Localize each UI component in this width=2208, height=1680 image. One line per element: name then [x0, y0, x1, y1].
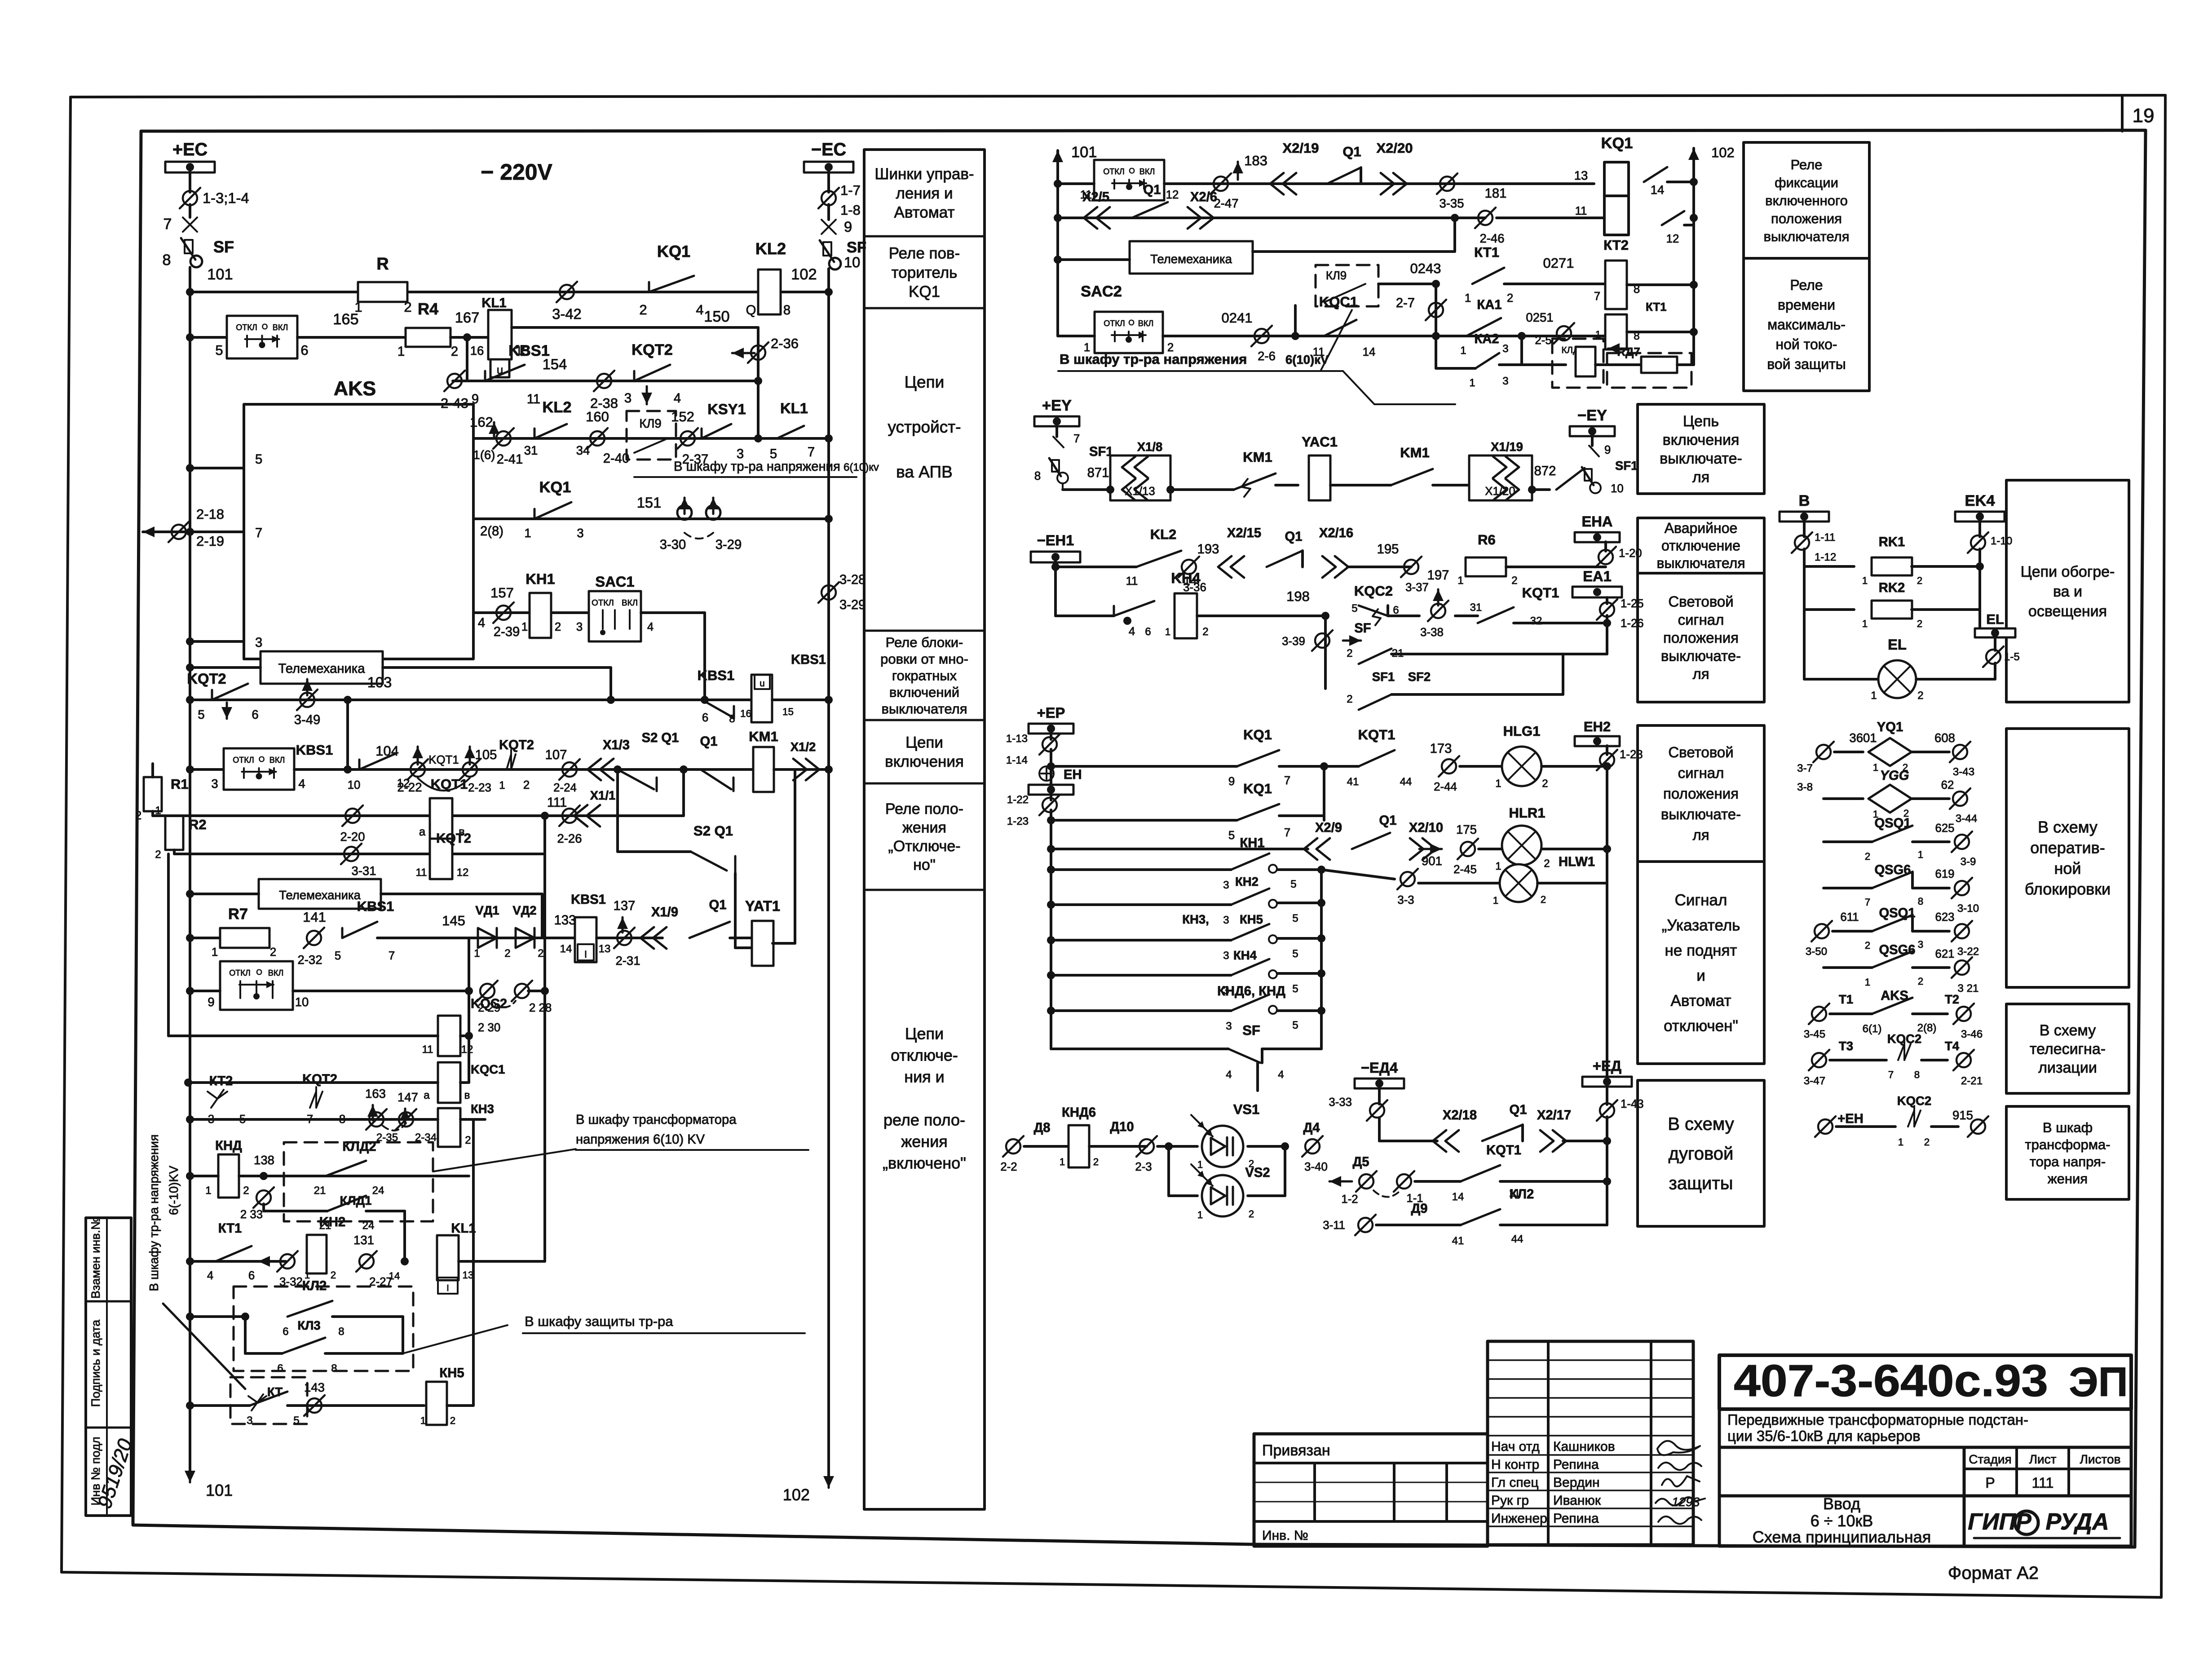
svg-text:1: 1: [1865, 977, 1870, 988]
svg-text:Реле: Реле: [1790, 277, 1823, 293]
svg-text:КА1: КА1: [1477, 298, 1501, 312]
svg-text:1: 1: [1495, 778, 1501, 790]
svg-text:KQT2: KQT2: [302, 1072, 337, 1087]
svg-text:21: 21: [314, 1185, 326, 1197]
svg-text:Телемеханика: Телемеханика: [1150, 252, 1232, 266]
svg-text:5: 5: [1228, 829, 1235, 842]
svg-text:1-22: 1-22: [1007, 794, 1029, 806]
svg-text:EL: EL: [1888, 636, 1907, 653]
svg-text:Q: Q: [746, 303, 756, 318]
svg-text:SF1: SF1: [1372, 670, 1395, 684]
svg-text:2-18: 2-18: [196, 506, 224, 522]
svg-text:34: 34: [576, 443, 590, 457]
svg-text:В схему: В схему: [2040, 1022, 2096, 1039]
svg-text:3: 3: [1918, 939, 1923, 950]
svg-text:11: 11: [1575, 205, 1587, 217]
svg-text:AKS: AKS: [334, 378, 376, 400]
svg-text:VД1: VД1: [475, 903, 499, 917]
svg-text:КЛ9: КЛ9: [639, 416, 661, 430]
svg-text:1: 1: [1465, 292, 1471, 305]
svg-text:6 ÷ 10кВ: 6 ÷ 10кВ: [1811, 1512, 1873, 1530]
svg-text:Листов: Листов: [2080, 1452, 2121, 1466]
svg-text:12: 12: [457, 867, 469, 879]
svg-text:КТ1: КТ1: [218, 1221, 242, 1236]
svg-text:2: 2: [1093, 1156, 1099, 1167]
svg-text:3-49: 3-49: [294, 713, 320, 727]
svg-text:KM1: KM1: [1400, 445, 1429, 460]
svg-text:КЛ2: КЛ2: [1510, 1187, 1534, 1202]
svg-text:X2/17: X2/17: [1537, 1108, 1571, 1123]
svg-text:КЛ9: КЛ9: [1326, 270, 1347, 282]
svg-text:КНД: КНД: [215, 1139, 242, 1153]
svg-text:KQ1: KQ1: [1601, 135, 1633, 152]
svg-text:KBS1: KBS1: [571, 893, 606, 907]
svg-text:131: 131: [353, 1233, 374, 1247]
svg-text:8: 8: [162, 252, 171, 269]
svg-text:KQC2: KQC2: [471, 997, 507, 1011]
svg-text:KL2: KL2: [543, 399, 572, 416]
svg-text:QSG6: QSG6: [1879, 943, 1915, 957]
svg-text:Q1: Q1: [1510, 1103, 1527, 1117]
svg-text:7: 7: [1865, 897, 1870, 908]
svg-text:сигнал: сигнал: [1678, 611, 1724, 628]
svg-text:1-20: 1-20: [1619, 547, 1642, 560]
svg-text:SF2: SF2: [1408, 670, 1431, 684]
svg-text:включения: включения: [885, 753, 964, 770]
svg-text:жения: жения: [901, 1132, 948, 1151]
svg-text:KQT1: KQT1: [431, 776, 468, 792]
svg-text:KL2: KL2: [755, 239, 786, 258]
svg-text:9: 9: [208, 995, 214, 1009]
svg-text:141: 141: [303, 909, 326, 925]
svg-text:2: 2: [1202, 626, 1208, 638]
svg-text:872: 872: [1534, 464, 1556, 478]
svg-text:2: 2: [243, 1185, 249, 1197]
svg-text:1: 1: [212, 946, 218, 959]
svg-text:ОТКЛ: ОТКЛ: [1104, 319, 1125, 328]
svg-text:+ЕД: +ЕД: [1593, 1057, 1621, 1074]
svg-text:включенного: включенного: [1765, 193, 1848, 208]
svg-text:напряжения 6(10) KV: напряжения 6(10) KV: [576, 1132, 705, 1147]
svg-text:5: 5: [255, 452, 262, 467]
svg-text:торитель: торитель: [892, 264, 958, 281]
svg-text:максималь-: максималь-: [1767, 317, 1846, 333]
svg-text:устройст-: устройст-: [888, 418, 961, 436]
svg-text:Рук гр: Рук гр: [1491, 1493, 1529, 1508]
svg-text:8: 8: [1034, 470, 1041, 482]
svg-text:5: 5: [1290, 878, 1296, 890]
svg-text:ния и: ния и: [904, 1068, 945, 1086]
svg-text:Автомат: Автомат: [894, 203, 954, 221]
svg-text:3-7: 3-7: [1797, 762, 1813, 774]
svg-text:Кашников: Кашников: [1553, 1439, 1615, 1454]
svg-text:11: 11: [422, 1043, 433, 1056]
svg-text:О: О: [1128, 318, 1134, 327]
svg-text:1-2: 1-2: [1341, 1193, 1358, 1206]
svg-text:102: 102: [1711, 145, 1735, 160]
svg-text:YGG: YGG: [1880, 769, 1909, 783]
svg-text:SF: SF: [1354, 621, 1371, 636]
svg-text:Р: Р: [1985, 1475, 1995, 1491]
svg-text:3-33: 3-33: [1329, 1096, 1352, 1109]
svg-text:181: 181: [1485, 186, 1507, 201]
svg-text:2: 2: [451, 345, 458, 359]
svg-text:EK4: EK4: [1965, 492, 1995, 509]
svg-text:24: 24: [362, 1220, 375, 1232]
svg-text:лизации: лизации: [2038, 1059, 2097, 1076]
svg-text:14: 14: [560, 943, 572, 955]
svg-text:времени: времени: [1778, 297, 1835, 313]
svg-text:6: 6: [1393, 604, 1399, 616]
svg-text:13: 13: [1574, 168, 1588, 182]
svg-text:S2 Q1: S2 Q1: [693, 823, 733, 839]
svg-text:7: 7: [255, 526, 262, 540]
svg-text:Привязан: Привязан: [1262, 1442, 1330, 1459]
svg-text:КН5: КН5: [1240, 912, 1263, 926]
svg-text:SF: SF: [1242, 1022, 1260, 1038]
svg-text:2-32: 2-32: [297, 953, 322, 967]
svg-text:КН3,: КН3,: [1182, 912, 1209, 926]
svg-text:4: 4: [1226, 1069, 1232, 1081]
svg-text:14: 14: [1452, 1191, 1464, 1203]
svg-text:KQT2: KQT2: [436, 831, 471, 846]
svg-text:X1/8: X1/8: [1137, 440, 1163, 454]
svg-text:3-11: 3-11: [1323, 1219, 1345, 1232]
svg-text:6: 6: [252, 707, 258, 721]
svg-text:+EP: +EP: [1037, 704, 1065, 721]
svg-text:3-40: 3-40: [1304, 1161, 1328, 1173]
svg-text:5: 5: [239, 1113, 246, 1126]
svg-text:выключателя: выключателя: [1764, 229, 1850, 244]
svg-text:3-43: 3-43: [1953, 766, 1974, 778]
svg-text:+EC: +EC: [172, 140, 208, 159]
svg-text:KQ1: KQ1: [539, 479, 571, 496]
svg-text:KQ1: KQ1: [1243, 781, 1272, 796]
svg-text:2: 2: [1917, 690, 1923, 702]
svg-text:+EY: +EY: [1042, 397, 1072, 414]
svg-text:2-5: 2-5: [1535, 334, 1551, 347]
svg-text:2-3: 2-3: [1135, 1161, 1152, 1173]
svg-text:2: 2: [1347, 693, 1352, 705]
svg-text:KBS1: KBS1: [357, 898, 394, 914]
svg-text:1293: 1293: [1672, 1495, 1700, 1509]
svg-text:положения: положения: [1663, 629, 1739, 646]
svg-text:8: 8: [729, 713, 735, 725]
svg-text:44: 44: [1511, 1233, 1524, 1245]
svg-text:24: 24: [372, 1185, 384, 1197]
svg-text:РУДА: РУДА: [2045, 1509, 2109, 1535]
svg-text:16: 16: [740, 708, 751, 719]
svg-text:KM1: KM1: [1243, 449, 1272, 465]
svg-text:Стадия: Стадия: [1969, 1452, 2011, 1466]
svg-text:3: 3: [1223, 950, 1229, 962]
svg-text:11: 11: [415, 867, 427, 879]
svg-text:фиксации: фиксации: [1775, 175, 1838, 190]
svg-text:KH2: KH2: [319, 1215, 345, 1229]
svg-text:7: 7: [1073, 433, 1080, 445]
svg-text:16: 16: [470, 344, 484, 358]
svg-text:KBS1: KBS1: [296, 742, 333, 758]
svg-text:10: 10: [844, 254, 860, 270]
svg-text:183: 183: [1244, 153, 1267, 168]
svg-text:3: 3: [577, 526, 583, 540]
svg-text:ЭП: ЭП: [2069, 1359, 2128, 1405]
svg-text:KQ1: KQ1: [909, 283, 940, 301]
svg-text:1: 1: [1862, 575, 1868, 586]
svg-text:173: 173: [1430, 742, 1452, 756]
svg-text:QSQ1: QSQ1: [1879, 906, 1915, 920]
svg-text:1: 1: [1862, 618, 1868, 629]
svg-text:3: 3: [576, 621, 583, 633]
svg-text:3-10: 3-10: [1957, 902, 1979, 915]
svg-text:111: 111: [2032, 1475, 2054, 1491]
svg-text:1-26: 1-26: [1621, 617, 1644, 630]
svg-text:Шинки управ-: Шинки управ-: [874, 165, 974, 183]
svg-text:2-2: 2-2: [1000, 1161, 1017, 1173]
svg-text:ля: ля: [1692, 666, 1709, 682]
svg-text:Передвижные трансформаторные: Передвижные трансформаторные подстан-: [1727, 1411, 2028, 1428]
svg-text:Q1: Q1: [1285, 530, 1303, 544]
svg-text:1-8: 1-8: [840, 202, 861, 218]
svg-text:VS2: VS2: [1245, 1166, 1270, 1180]
svg-text:Цепи обогре-: Цепи обогре-: [2021, 563, 2115, 580]
svg-text:В шкаф: В шкаф: [2043, 1119, 2093, 1135]
svg-text:4: 4: [207, 1269, 213, 1282]
svg-text:15: 15: [782, 706, 794, 717]
svg-text:2: 2: [1507, 292, 1513, 305]
svg-text:3-9: 3-9: [1961, 856, 1976, 868]
svg-text:О: О: [1129, 166, 1135, 175]
svg-text:1: 1: [1873, 762, 1878, 773]
svg-text:включений: включений: [889, 684, 959, 700]
svg-text:2: 2: [1917, 618, 1922, 629]
svg-text:2-22: 2-22: [397, 780, 422, 794]
svg-text:4: 4: [647, 621, 654, 633]
svg-text:41: 41: [1347, 776, 1359, 788]
svg-text:гократных: гократных: [892, 668, 957, 683]
svg-text:КН1: КН1: [1240, 836, 1264, 850]
svg-text:7: 7: [1888, 1069, 1894, 1080]
svg-text:КЛД1: КЛД1: [340, 1194, 372, 1207]
svg-text:О: О: [256, 968, 262, 977]
svg-text:выключате-: выключате-: [1660, 450, 1742, 467]
svg-text:3: 3: [247, 1415, 252, 1427]
svg-text:YQ1: YQ1: [1877, 720, 1903, 734]
svg-text:X2/16: X2/16: [1319, 526, 1353, 540]
svg-text:Реле пов-: Реле пов-: [889, 245, 960, 262]
svg-text:1(6): 1(6): [473, 448, 495, 462]
svg-text:KM1: KM1: [749, 729, 778, 744]
svg-text:1-25: 1-25: [1621, 597, 1644, 610]
svg-text:31: 31: [524, 443, 538, 457]
svg-text:104: 104: [375, 743, 399, 759]
svg-text:ВКЛ: ВКЛ: [268, 968, 283, 977]
svg-text:X2/18: X2/18: [1443, 1108, 1477, 1123]
svg-text:13: 13: [463, 1269, 474, 1281]
svg-text:12: 12: [1166, 189, 1179, 201]
svg-text:KBS1: KBS1: [698, 668, 735, 683]
svg-text:2-7: 2-7: [1396, 296, 1415, 310]
svg-text:КЛД2: КЛД2: [342, 1140, 376, 1154]
svg-text:7: 7: [163, 216, 172, 233]
svg-text:2-39: 2-39: [494, 625, 520, 639]
svg-text:145: 145: [442, 913, 465, 928]
svg-text:KQC1: KQC1: [1319, 294, 1358, 309]
svg-text:Q1: Q1: [709, 898, 727, 912]
svg-text:41: 41: [1452, 1235, 1464, 1247]
svg-text:ля: ля: [1692, 827, 1709, 843]
svg-text:2: 2: [1347, 647, 1352, 659]
svg-text:+ЕН: +ЕН: [1837, 1112, 1864, 1126]
svg-text:Цепи: Цепи: [905, 1025, 944, 1043]
svg-text:QSQ1: QSQ1: [1874, 816, 1911, 831]
svg-text:14: 14: [1651, 183, 1665, 197]
svg-text:31: 31: [1470, 601, 1482, 614]
svg-text:105: 105: [475, 748, 497, 762]
svg-text:152: 152: [671, 409, 694, 424]
svg-text:X1/19: X1/19: [1491, 440, 1523, 454]
svg-text:вой защиты: вой защиты: [1767, 356, 1846, 372]
svg-text:1: 1: [397, 345, 405, 359]
svg-text:3-8: 3-8: [1797, 781, 1813, 793]
svg-text:193: 193: [1197, 542, 1219, 557]
svg-text:R2: R2: [189, 817, 207, 832]
svg-text:Цепи: Цепи: [905, 373, 945, 391]
svg-text:КН5: КН5: [439, 1366, 464, 1380]
svg-text:3: 3: [1223, 914, 1229, 926]
svg-text:KL2: KL2: [1150, 526, 1177, 542]
svg-text:телесигна-: телесигна-: [2030, 1040, 2106, 1057]
svg-text:162: 162: [470, 414, 493, 430]
svg-text:2-21: 2-21: [1961, 1075, 1983, 1087]
svg-text:EA1: EA1: [1583, 568, 1612, 584]
svg-text:Подпись и дата: Подпись и дата: [89, 1319, 102, 1407]
svg-text:0241: 0241: [1222, 310, 1253, 326]
svg-text:3601: 3601: [1849, 731, 1877, 745]
svg-text:2: 2: [1542, 778, 1548, 790]
svg-text:освещения: освещения: [2028, 603, 2107, 620]
svg-text:7: 7: [1284, 827, 1290, 839]
svg-text:В шкафу тр-ра напряжения: В шкафу тр-ра напряжения: [1060, 351, 1247, 367]
svg-text:1: 1: [1493, 895, 1498, 906]
svg-text:12: 12: [461, 1043, 473, 1056]
svg-text:КЛ3: КЛ3: [297, 1318, 320, 1332]
svg-text:2: 2: [155, 849, 161, 861]
svg-text:1: 1: [1898, 1136, 1903, 1148]
svg-text:3-29: 3-29: [839, 598, 866, 612]
svg-text:3: 3: [624, 391, 631, 406]
svg-text:ВКЛ: ВКЛ: [1139, 167, 1155, 176]
svg-text:8: 8: [783, 303, 790, 318]
svg-text:−EH1: −EH1: [1037, 532, 1074, 548]
svg-text:Формат А2: Формат А2: [1948, 1563, 2039, 1583]
svg-text:5: 5: [1292, 948, 1298, 960]
svg-text:9: 9: [844, 218, 852, 235]
svg-text:2: 2: [639, 302, 647, 318]
svg-text:Лист: Лист: [2029, 1452, 2057, 1466]
svg-text:выключате-: выключате-: [1661, 647, 1741, 664]
svg-text:1: 1: [499, 779, 505, 791]
svg-text:3-39: 3-39: [1282, 635, 1305, 648]
svg-text:198: 198: [1286, 588, 1310, 604]
svg-text:154: 154: [543, 356, 567, 372]
svg-text:X1/1: X1/1: [590, 788, 616, 802]
svg-text:R7: R7: [228, 906, 248, 923]
svg-text:8: 8: [339, 1113, 345, 1126]
svg-text:2-31: 2-31: [615, 954, 640, 968]
svg-text:175: 175: [1456, 822, 1477, 836]
svg-text:КТ2: КТ2: [209, 1074, 233, 1088]
svg-text:3-38: 3-38: [1420, 626, 1444, 639]
svg-text:I: I: [584, 949, 587, 960]
svg-text:КН4: КН4: [1233, 948, 1257, 962]
svg-text:3-31: 3-31: [351, 864, 376, 878]
svg-text:103: 103: [367, 674, 392, 690]
svg-text:3-30: 3-30: [660, 538, 686, 552]
svg-text:2: 2: [1544, 858, 1550, 870]
svg-text:1: 1: [1060, 1156, 1065, 1167]
svg-text:2-36: 2-36: [771, 336, 799, 351]
svg-text:62: 62: [1941, 779, 1954, 791]
svg-text:623: 623: [1935, 911, 1954, 924]
svg-text:− 220V: − 220V: [481, 159, 552, 185]
svg-text:О: О: [262, 322, 268, 331]
svg-text:Q1: Q1: [1144, 183, 1161, 197]
svg-text:111: 111: [547, 796, 567, 810]
svg-text:2-44: 2-44: [1434, 781, 1457, 793]
svg-text:0271: 0271: [1543, 255, 1574, 271]
svg-text:Телемеханика: Телемеханика: [279, 888, 361, 902]
svg-text:КЛ2: КЛ2: [302, 1279, 327, 1293]
svg-text:ОТКЛ: ОТКЛ: [233, 756, 254, 765]
svg-text:SF: SF: [213, 238, 234, 256]
svg-text:1-3;1-4: 1-3;1-4: [203, 190, 249, 206]
svg-text:2: 2: [555, 621, 561, 633]
svg-text:отключе-: отключе-: [891, 1046, 958, 1065]
svg-text:1-23: 1-23: [1007, 815, 1029, 827]
svg-text:КНД6: КНД6: [1062, 1105, 1096, 1120]
svg-text:2 30: 2 30: [478, 1021, 500, 1034]
svg-text:2: 2: [538, 947, 543, 959]
svg-text:2 33: 2 33: [240, 1208, 263, 1221]
svg-text:147: 147: [397, 1090, 418, 1104]
svg-text:Реле блоки-: Реле блоки-: [886, 634, 963, 650]
svg-text:Д9: Д9: [1411, 1202, 1427, 1216]
svg-text:3: 3: [1502, 375, 1508, 387]
svg-text:Д10: Д10: [1110, 1120, 1134, 1134]
svg-text:1-43: 1-43: [1621, 1098, 1644, 1110]
svg-text:2: 2: [523, 779, 530, 791]
svg-text:2-6: 2-6: [1258, 349, 1276, 363]
svg-text:EH2: EH2: [1584, 719, 1611, 734]
svg-text:619: 619: [1935, 868, 1954, 880]
svg-text:в: в: [464, 1089, 470, 1101]
svg-text:4: 4: [674, 391, 681, 406]
svg-text:„включено": „включено": [883, 1154, 966, 1172]
svg-text:a: a: [419, 826, 426, 838]
svg-text:КТ1: КТ1: [1646, 301, 1667, 314]
svg-text:1-10: 1-10: [1991, 535, 2012, 547]
svg-text:1-14: 1-14: [1006, 754, 1028, 766]
svg-text:2: 2: [1541, 894, 1546, 905]
svg-text:Аварийное: Аварийное: [1665, 520, 1738, 536]
svg-text:KQT1: KQT1: [1522, 585, 1559, 601]
svg-text:включения: включения: [1663, 432, 1740, 449]
svg-text:1: 1: [524, 526, 531, 540]
svg-text:901: 901: [1422, 854, 1442, 868]
svg-text:VД2: VД2: [512, 903, 536, 917]
svg-text:не поднят: не поднят: [1665, 942, 1737, 959]
